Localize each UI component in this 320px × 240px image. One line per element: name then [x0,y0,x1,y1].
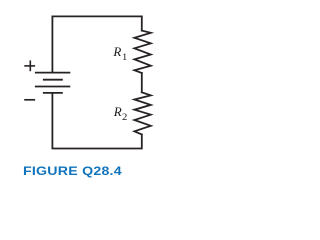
plus sign [25,61,34,70]
battery B1 plate 3 long [36,86,70,88]
battery B1 plate 2 short [44,79,62,81]
caption FIGURE Q28.4 [23,165,122,177]
label R1 [113,45,126,60]
battery B1 plate 1 long (+) [36,72,70,74]
wire bottom: from battery negative terminal down and right to resistor branch [52,93,141,149]
wire top: from battery positive terminal up and right to resistor branch [52,16,141,72]
minus sign [25,99,34,101]
resistor R2 zigzag [134,92,150,134]
label R2 [114,105,127,120]
battery B1 plate 4 short (-) [44,92,62,94]
resistor R1 zigzag [134,31,150,73]
wire between R1 and R2 [141,73,143,92]
